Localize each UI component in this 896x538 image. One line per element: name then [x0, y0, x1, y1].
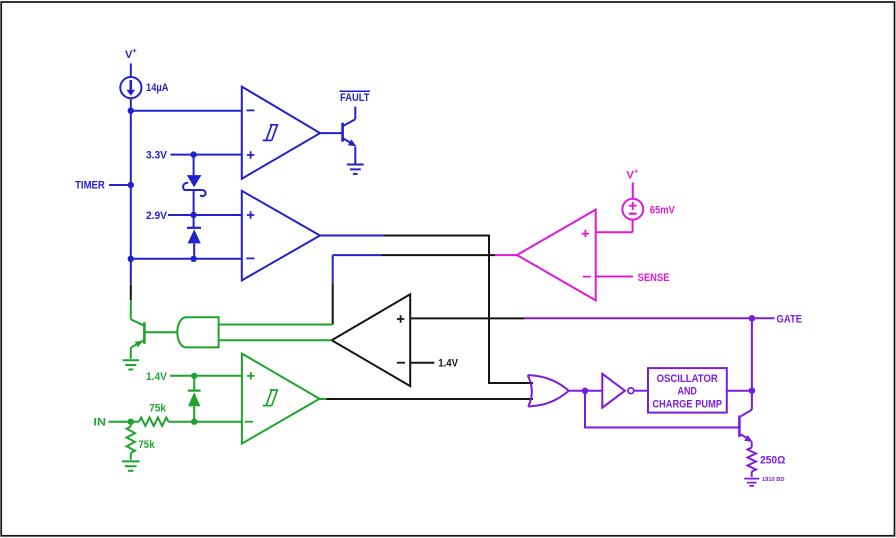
svg-text:CHARGE PUMP: CHARGE PUMP — [652, 399, 722, 411]
svg-text:65mV: 65mV — [650, 204, 676, 216]
svg-text:OSCILLATOR: OSCILLATOR — [657, 373, 718, 385]
svg-text:1.4V: 1.4V — [438, 358, 458, 370]
svg-text:GATE: GATE — [777, 314, 803, 326]
svg-text:1910 BD: 1910 BD — [762, 477, 785, 483]
svg-text:1.4V: 1.4V — [146, 371, 168, 383]
svg-text:+: + — [634, 167, 639, 176]
svg-text:+: + — [132, 46, 137, 55]
svg-text:IN: IN — [94, 417, 106, 429]
svg-text:TIMER: TIMER — [75, 180, 105, 192]
svg-text:3.3V: 3.3V — [146, 149, 168, 161]
svg-text:2.9V: 2.9V — [146, 210, 168, 222]
svg-text:FAULT: FAULT — [340, 92, 370, 104]
svg-text:14µA: 14µA — [146, 82, 169, 94]
svg-text:250Ω: 250Ω — [760, 454, 785, 466]
svg-text:75k: 75k — [138, 439, 155, 451]
svg-text:75k: 75k — [149, 402, 166, 414]
svg-text:AND: AND — [678, 385, 697, 397]
svg-text:SENSE: SENSE — [638, 272, 670, 284]
